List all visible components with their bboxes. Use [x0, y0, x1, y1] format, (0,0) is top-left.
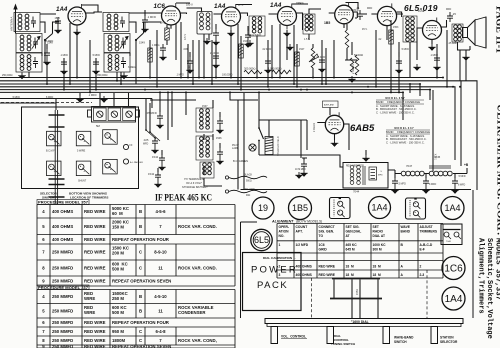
svg-text:ROCK VAR. COND.: ROCK VAR. COND.	[178, 266, 217, 271]
tube V1 1A4 RF amp	[68, 4, 86, 29]
capacitor to ground	[215, 24, 217, 29]
svg-text:NO.: NO.	[279, 234, 285, 238]
svg-text:1545: 1545	[55, 17, 61, 20]
svg-text:SHUNT: SHUNT	[78, 180, 87, 183]
IF transformer IF3	[196, 108, 213, 132]
svg-text:5M: 5M	[96, 124, 101, 128]
svg-text:1B5: 1B5	[324, 21, 330, 25]
svg-text:400 OHMS: 400 OHMS	[52, 209, 73, 214]
svg-text:MFD: MFD	[446, 8, 451, 11]
svg-text:.006: .006	[183, 48, 188, 51]
svg-text:1/2 MFD: 1/2 MFD	[296, 243, 309, 247]
svg-text:REPEAT OPERATION FOUR: REPEAT OPERATION FOUR	[112, 237, 170, 242]
svg-text:RADIO: RADIO	[373, 229, 384, 233]
wire speaker field	[259, 120, 307, 158]
svg-text:RED WIRE: RED WIRE	[84, 279, 106, 284]
wire bus line 6	[0, 92, 403, 120]
svg-text:GEN.DIAL: GEN.DIAL	[346, 229, 362, 233]
speaker field coil choke	[452, 24, 463, 42]
svg-text:350,000Ω: 350,000Ω	[97, 74, 108, 77]
svg-text:B: B	[139, 224, 142, 229]
trimmer C	[103, 130, 118, 145]
panel border right	[472, 190, 474, 318]
wire vertical drops left	[47, 40, 150, 92]
svg-text:8 MFD: 8 MFD	[429, 183, 436, 186]
wire to tube V1 grid	[53, 22, 60, 34]
svg-text:465 KC: 465 KC	[346, 243, 358, 247]
svg-text:.05 MFD: .05 MFD	[146, 111, 157, 115]
svg-text:1542: 1542	[152, 155, 159, 159]
svg-text:2: 2	[420, 264, 422, 268]
svg-text:1 MEG: 1 MEG	[152, 44, 160, 47]
svg-text:B: B	[139, 294, 142, 299]
ground extra 1	[100, 96, 108, 103]
capacitor D3	[93, 58, 99, 68]
svg-text:1A4: 1A4	[56, 6, 68, 13]
wire osc coil	[187, 8, 210, 78]
svg-text:25,000Ω: 25,000Ω	[210, 52, 219, 55]
svg-text:SELECTOR: SELECTOR	[440, 340, 458, 344]
svg-text:6AB5: 6AB5	[350, 123, 375, 134]
svg-text:GRID: GRID	[319, 248, 328, 252]
resistor R8	[239, 44, 244, 58]
capacitor C12 1542	[161, 150, 163, 155]
capacitor C3	[160, 44, 166, 54]
svg-text:+B: +B	[464, 163, 469, 167]
socket trimmer box 1	[330, 198, 351, 219]
svg-text:250 M: 250 M	[112, 296, 124, 301]
RF coil T6	[104, 53, 130, 72]
svg-text:645 M: 645 M	[346, 248, 355, 252]
resistor R1 1 MEG	[165, 28, 170, 40]
svg-text:FUSE: FUSE	[418, 10, 425, 13]
svg-text:2 MEGS: 2 MEGS	[351, 64, 355, 74]
svg-text:18 M: 18 M	[373, 264, 381, 268]
antenna coil T3	[16, 53, 42, 72]
switch blades S3	[146, 130, 160, 141]
wire left drop	[0, 102, 2, 104]
capacitor C14	[302, 158, 307, 160]
padder FF	[123, 144, 128, 149]
socket 1C6	[442, 257, 465, 280]
battery terminal 2	[225, 190, 228, 193]
svg-text:PACK: PACK	[257, 280, 288, 291]
svg-text:TO: TO	[319, 234, 324, 238]
socket 1B5	[289, 197, 312, 220]
battery lead yellow	[229, 190, 267, 193]
ground C1	[54, 27, 62, 34]
junction dots	[69, 83, 71, 85]
svg-text:250 MMFD: 250 MMFD	[52, 250, 73, 255]
svg-text:4-5-6: 4-5-6	[155, 209, 166, 214]
wire top cap runs	[82, 3, 359, 13]
svg-text:OF A 6 VOLT: OF A 6 VOLT	[186, 181, 202, 185]
svg-text:BLACK: BLACK	[244, 174, 253, 177]
svg-text:4-5-10: 4-5-10	[154, 294, 167, 299]
svg-text:.5 MFD: .5 MFD	[398, 183, 406, 186]
svg-text:RED WIRE: RED WIRE	[84, 224, 106, 229]
wire gang drop	[100, 93, 129, 106]
svg-text:.5 MFD: .5 MFD	[458, 176, 466, 178]
trimmer location box	[22, 107, 139, 189]
ground extra 2	[203, 38, 211, 45]
svg-text:250,000Ω: 250,000Ω	[2, 74, 13, 77]
svg-text:.5 MFD: .5 MFD	[401, 48, 409, 51]
svg-text:400 OHMS: 400 OHMS	[296, 273, 313, 277]
svg-text:950 M: 950 M	[112, 329, 124, 334]
svg-text:A.L.PADDER: A.L.PADDER	[130, 161, 143, 164]
capacitor to ground	[189, 52, 191, 57]
svg-text:A · SHORT WAVE · 6-18 MEGS.: A · SHORT WAVE · 6-18 MEGS.	[386, 134, 425, 138]
antenna	[15, 7, 17, 30]
svg-text:250 MMFD: 250 MMFD	[52, 308, 73, 313]
tube V3 1A4 IF amp	[222, 4, 241, 30]
svg-text:.1 MFD: .1 MFD	[147, 15, 156, 19]
wire speaker	[410, 40, 470, 78]
antenna coil T2	[16, 34, 42, 53]
wire vertical drops far right	[437, 30, 466, 87]
svg-text:TUNING SWITCH: TUNING SWITCH	[331, 342, 355, 346]
wire V1 down	[70, 23, 77, 84]
svg-text:C: C	[139, 329, 142, 334]
svg-text:RED WIRE: RED WIRE	[84, 237, 106, 242]
capacitor C8 .05 MFD	[159, 93, 161, 112]
svg-text:.02 MFD: .02 MFD	[251, 33, 262, 37]
socket 1A4 c	[442, 287, 465, 310]
wire lower interconnects	[0, 99, 152, 111]
dial assembly	[330, 279, 382, 319]
ground antenna coils	[18, 73, 26, 80]
svg-text:8 MFD: 8 MFD	[458, 184, 465, 187]
wire mid vert	[168, 93, 244, 190]
wire V8	[317, 108, 349, 151]
svg-text:500 M: 500 M	[112, 310, 124, 315]
svg-text:IF PEAK 465 KC: IF PEAK 465 KC	[155, 194, 212, 204]
svg-text:1A4: 1A4	[444, 203, 460, 213]
capacitor D5	[213, 52, 219, 62]
svg-text:100,000Ω: 100,000Ω	[222, 74, 233, 77]
svg-text:4.5 V: 4.5 V	[183, 34, 187, 40]
svg-text:REG. VIBRATOR: REG. VIBRATOR	[346, 164, 364, 167]
svg-text:ROCK VAR. COND,: ROCK VAR. COND,	[178, 338, 217, 343]
capacitor D2	[61, 58, 67, 68]
models label	[477, 238, 500, 339]
panel border left	[241, 222, 258, 318]
svg-text:M O D E L 3 5 7: M O D E L 3 5 7	[385, 96, 405, 100]
tuning gang condenser	[88, 107, 140, 123]
svg-text:250 MMFD: 250 MMFD	[52, 338, 73, 343]
svg-text:MFD: MFD	[143, 143, 148, 146]
resistor R5 2 MEGS	[355, 55, 359, 75]
svg-text:1546: 1546	[216, 137, 222, 140]
capacitor to ground	[219, 112, 221, 117]
svg-text:BAND FREQUENCY COVERAGE: BAND FREQUENCY COVERAGE	[386, 130, 430, 134]
svg-text:18 M: 18 M	[346, 273, 354, 277]
chassis leg 3	[383, 327, 390, 344]
resistor R4	[345, 30, 349, 48]
trimmer F	[103, 159, 118, 174]
svg-text:RED WIRE: RED WIRE	[84, 344, 106, 348]
wire osc drops	[199, 40, 212, 84]
vibrator transformer box 7044	[343, 163, 388, 189]
svg-text:300 M: 300 M	[373, 248, 382, 252]
svg-text:B.C.M.F: B.C.M.F	[46, 150, 55, 153]
ground V7	[428, 44, 436, 51]
svg-text:ROCK VAR. COND.: ROCK VAR. COND.	[178, 224, 217, 229]
socket 1A4 b	[441, 197, 464, 220]
trimmer A	[47, 131, 62, 146]
svg-text:RED WIRE: RED WIRE	[84, 209, 106, 214]
svg-text:SWITCH: SWITCH	[394, 340, 407, 344]
svg-text:400 OHMS: 400 OHMS	[296, 264, 313, 268]
selector switch shaft	[55, 110, 57, 204]
mechanical link dashed	[1, 102, 92, 104]
svg-text:C: C	[139, 250, 142, 255]
svg-text:C · LONG WAVE · 150-350 K.C.: C · LONG WAVE · 150-350 K.C.	[376, 111, 415, 115]
ground C2	[141, 26, 149, 33]
svg-text:C: C	[139, 338, 142, 343]
svg-text:1549: 1549	[139, 41, 145, 45]
svg-text:WAVE: WAVE	[401, 225, 411, 229]
svg-text:C · LONG WAVE · 150-350 K.C.: C · LONG WAVE · 150-350 K.C.	[386, 141, 425, 145]
coil L2	[303, 14, 315, 34]
svg-text:11: 11	[158, 308, 163, 313]
svg-text:19: 19	[258, 203, 268, 213]
svg-text:A · SHORT WAVE · 6-18 MEGS.: A · SHORT WAVE · 6-18 MEGS.	[376, 104, 415, 108]
output transformer T7	[403, 16, 417, 42]
svg-text:SPEAKER FIELD: SPEAKER FIELD	[277, 136, 280, 156]
wire switch drop	[259, 93, 343, 167]
capacitor C17 8 MFD	[454, 174, 456, 179]
svg-text:50,000Ω: 50,000Ω	[354, 54, 363, 57]
socket 6L5	[251, 229, 272, 250]
svg-text:AT: AT	[346, 234, 350, 238]
wire vibrator	[340, 167, 395, 170]
svg-text:APT.: APT.	[296, 229, 303, 233]
svg-text:MODELS 357,337: MODELS 357,337	[494, 238, 500, 300]
svg-text:VOL. CONTROL: VOL. CONTROL	[281, 335, 306, 339]
ground extra 5	[348, 76, 356, 83]
svg-text:SET: SET	[373, 225, 379, 229]
svg-text:900Ω: 900Ω	[246, 181, 252, 183]
IF transformer IF2	[249, 16, 265, 36]
svg-text:1A4: 1A4	[371, 203, 387, 213]
band switch S1a	[45, 34, 53, 41]
svg-text:CONNECT: CONNECT	[319, 225, 335, 229]
ground vibrator top	[365, 150, 367, 155]
svg-text:250 MMFD: 250 MMFD	[52, 266, 73, 271]
svg-text:BAND FREQUENCY COVERAGE: BAND FREQUENCY COVERAGE	[376, 100, 420, 104]
alignment table	[277, 224, 443, 279]
alignment socket box	[441, 224, 462, 245]
pilot lamp	[249, 144, 256, 151]
svg-text:1000 KC: 1000 KC	[373, 243, 387, 247]
tube V4 1A4 2nd det	[278, 4, 297, 30]
svg-text:6L5: 6L5	[254, 235, 269, 245]
dashed line chassis left	[311, 278, 313, 318]
svg-text:MFD: MFD	[378, 175, 383, 177]
svg-text:CONDENSER: CONDENSER	[178, 310, 206, 315]
svg-text:PAGE 11-1: PAGE 11-1	[494, 6, 500, 53]
svg-text:.025: .025	[143, 138, 149, 142]
wire verticals mid	[403, 81, 461, 171]
svg-text:.1 MFD: .1 MFD	[88, 93, 97, 97]
svg-text:RED WIRE: RED WIRE	[84, 338, 106, 343]
svg-text:3 MEG: 3 MEG	[128, 66, 136, 69]
svg-text:ALIGNMENT: ALIGNMENT	[271, 219, 294, 223]
svg-text:1C6: 1C6	[154, 3, 166, 10]
svg-text:7046: 7046	[446, 241, 452, 243]
svg-text:TRIMMERS: TRIMMERS	[420, 229, 438, 233]
svg-text:.1 MFD: .1 MFD	[60, 54, 68, 57]
svg-text:500 M: 500 M	[112, 266, 124, 271]
svg-text:POWER: POWER	[251, 265, 298, 276]
resistor R3 1 megohm	[272, 70, 291, 74]
svg-text:.5 MFD: .5 MFD	[92, 54, 100, 57]
svg-text:WIRE: WIRE	[84, 296, 95, 301]
svg-text:67 V.: 67 V.	[160, 22, 166, 25]
wire V2 cathode	[171, 22, 181, 78]
wire ant block	[16, 22, 46, 78]
oscillator coil L1 7042	[197, 12, 212, 35]
ground extra 7	[462, 54, 470, 61]
wave band table model 357	[376, 96, 420, 115]
svg-text:150 M: 150 M	[112, 224, 124, 229]
ground V8 grid	[295, 172, 303, 179]
svg-text:1B5: 1B5	[292, 203, 308, 213]
padder AL	[123, 159, 128, 164]
chassis leg 1	[271, 327, 278, 344]
svg-text:ATION: ATION	[279, 229, 290, 233]
svg-text:AIRPLANE: AIRPLANE	[324, 104, 335, 107]
svg-text:8-9-10: 8-9-10	[154, 250, 167, 255]
svg-text:°1600 DIAL: °1600 DIAL	[351, 320, 369, 324]
ground extra 3	[246, 40, 254, 47]
ground extra 4	[286, 44, 294, 51]
trimmer E	[76, 161, 91, 176]
wire choke join	[425, 168, 468, 174]
capacitor D9	[434, 54, 440, 64]
svg-text:1547: 1547	[202, 105, 208, 108]
wire RF block	[94, 12, 136, 81]
socket label box V8	[323, 101, 339, 108]
resistor R7	[148, 48, 153, 62]
chassis bar	[265, 319, 463, 327]
capacitor C7 .25 MFD	[447, 12, 453, 22]
svg-text:TO TERMINALS: TO TERMINALS	[184, 177, 204, 181]
svg-text:250 MMFD: 250 MMFD	[52, 344, 73, 348]
svg-text:250 MMFD: 250 MMFD	[52, 329, 73, 334]
svg-text:1A4: 1A4	[445, 294, 463, 305]
capacitor to ground	[398, 52, 400, 57]
RF coil T4	[103, 13, 129, 32]
resistor R10	[350, 58, 354, 72]
capacitor C16 8 MFD	[425, 174, 427, 179]
wire V3	[214, 13, 248, 16]
band switch S1b	[136, 33, 144, 40]
svg-text:.02 MFD: .02 MFD	[262, 48, 271, 51]
svg-text:SIG. GEN.: SIG. GEN.	[319, 229, 335, 233]
procedure table model 357 header	[37, 200, 89, 205]
wire battery feed	[146, 99, 150, 133]
battery terminal 1	[225, 176, 228, 179]
svg-text:(BOTH MODELS): (BOTH MODELS)	[296, 219, 322, 223]
svg-text:ADJUST: ADJUST	[420, 225, 433, 229]
tube V5 1B5 1st audio	[335, 2, 354, 28]
wire V5	[329, 12, 358, 18]
ground RF coils	[120, 73, 128, 80]
svg-text:.1 MFD: .1 MFD	[430, 54, 438, 57]
svg-text:RED WIRE: RED WIRE	[84, 320, 106, 325]
svg-text:1547: 1547	[299, 48, 305, 51]
wire top interconnects	[40, 13, 403, 84]
svg-text:A-B-C-D: A-B-C-D	[420, 243, 433, 247]
svg-text:2 MEGS: 2 MEGS	[313, 123, 316, 132]
svg-text:18 M: 18 M	[346, 264, 354, 268]
resistor R11	[389, 30, 394, 44]
svg-text:B · BROADCAST · 540-1500 K.C.: B · BROADCAST · 540-1500 K.C.	[376, 107, 417, 111]
svg-text:SET SIG.: SET SIG.	[346, 225, 360, 229]
svg-text:45 V.: 45 V.	[362, 28, 368, 31]
resistor R9	[295, 52, 300, 66]
svg-text:SWITCH: SWITCH	[42, 196, 55, 200]
svg-text:1553: 1553	[393, 26, 399, 29]
tube V8 6AB5 tuning eye	[325, 112, 343, 137]
svg-text:1542: 1542	[148, 172, 155, 176]
socket 1A4 a	[369, 197, 391, 219]
svg-text:.25: .25	[452, 12, 456, 16]
svg-text:B: B	[139, 308, 142, 313]
chassis leg 4	[431, 327, 438, 344]
svg-text:C: C	[139, 266, 142, 271]
capacitor to ground	[247, 26, 249, 31]
wire V4	[269, 13, 303, 30]
svg-text:5 WIRE: 5 WIRE	[77, 150, 86, 153]
tube V2 1C6 osc-mod	[162, 3, 181, 29]
svg-text:.25 AMP: .25 AMP	[448, 42, 457, 45]
svg-text:7044: 7044	[353, 190, 360, 194]
wire V1 plate	[86, 12, 102, 13]
wire bus B- line	[0, 77, 443, 79]
ground V4	[283, 30, 291, 37]
ground V3	[227, 30, 235, 37]
svg-text:11: 11	[158, 266, 163, 271]
svg-text:WIRE: WIRE	[84, 310, 95, 315]
svg-text:90Ω: 90Ω	[246, 195, 251, 197]
svg-text:RED WIRE: RED WIRE	[84, 329, 106, 334]
procedure table model 337 header	[37, 285, 89, 290]
svg-text:RED WIRE: RED WIRE	[319, 273, 336, 277]
speaker horn	[463, 17, 487, 48]
svg-text:MFD: MFD	[367, 7, 372, 10]
svg-text:7047: 7047	[406, 164, 413, 168]
wire BC green	[204, 178, 222, 186]
power pack box	[243, 253, 302, 311]
svg-text:B · BROADCAST · 540-1500 K.C.: B · BROADCAST · 540-1500 K.C.	[386, 137, 427, 141]
svg-text:Schematic,Socket,Voltage: Schematic,Socket,Voltage	[485, 238, 493, 339]
svg-text:E-F: E-F	[420, 248, 425, 252]
capacitor D7	[319, 56, 325, 66]
svg-text:250 MMFD: 250 MMFD	[52, 294, 73, 299]
wave band table model 337	[386, 126, 430, 145]
svg-text:18 M: 18 M	[373, 273, 381, 277]
svg-text:REPEAT OPERATION FOUR: REPEAT OPERATION FOUR	[112, 320, 170, 325]
svg-text:400 OHMS: 400 OHMS	[52, 224, 73, 229]
capacitor C15 .5 MFD	[395, 170, 401, 178]
chassis leg 2	[327, 327, 334, 344]
svg-text:LAMP: LAMP	[232, 147, 239, 150]
wire V6	[371, 12, 401, 17]
